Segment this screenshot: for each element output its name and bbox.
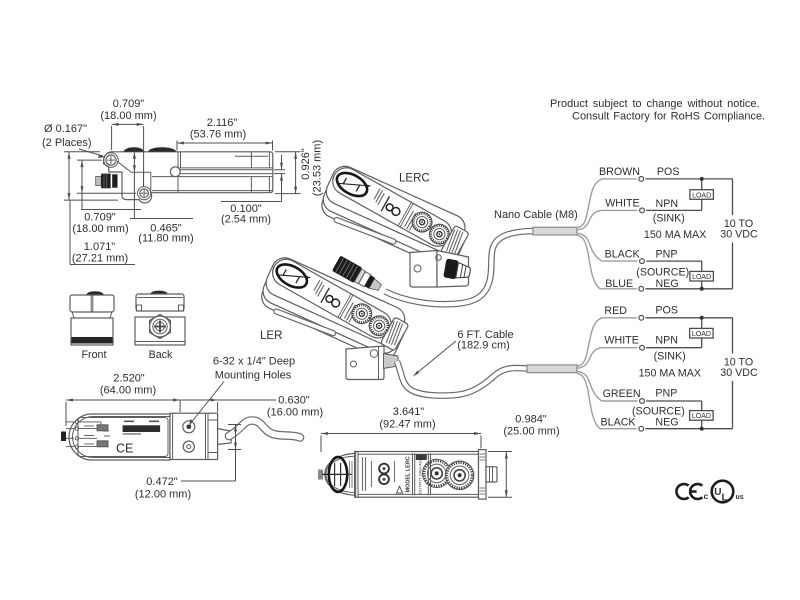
svg-text:(2 Places): (2 Places) xyxy=(42,137,92,149)
svg-text:RED: RED xyxy=(604,305,627,317)
svg-text:(12.00 mm): (12.00 mm) xyxy=(135,489,191,501)
svg-text:GREEN: GREEN xyxy=(603,388,641,400)
svg-text:BLACK: BLACK xyxy=(601,417,637,429)
svg-text:(SINK): (SINK) xyxy=(654,351,686,363)
svg-text:(53.76 mm): (53.76 mm) xyxy=(190,129,246,141)
svg-text:0.709": 0.709" xyxy=(113,98,145,110)
svg-text:150 MA MAX: 150 MA MAX xyxy=(639,367,701,379)
svg-text:LER: LER xyxy=(260,330,282,342)
svg-text:NPN: NPN xyxy=(656,198,679,210)
svg-text:PNP: PNP xyxy=(656,248,678,260)
svg-text:LOAD: LOAD xyxy=(692,274,711,281)
svg-text:NEG: NEG xyxy=(655,417,678,429)
svg-text:Mounting Holes: Mounting Holes xyxy=(215,370,292,382)
svg-text:2.116": 2.116" xyxy=(207,117,238,129)
svg-text:(64.00 mm): (64.00 mm) xyxy=(100,385,156,397)
svg-text:(2.54 mm): (2.54 mm) xyxy=(221,214,271,226)
svg-text:3.641": 3.641" xyxy=(393,406,425,418)
svg-text:(18.00 mm): (18.00 mm) xyxy=(100,110,156,122)
svg-text:us: us xyxy=(736,494,744,501)
svg-text:POS: POS xyxy=(657,166,680,178)
svg-text:6-32 x 1/4" Deep: 6-32 x 1/4" Deep xyxy=(213,356,295,368)
svg-text:Consult Factory for RoHS Compl: Consult Factory for RoHS Compliance. xyxy=(572,111,765,123)
svg-text:BROWN: BROWN xyxy=(599,166,640,178)
svg-text:LOAD: LOAD xyxy=(692,192,711,199)
svg-text:(25.00 mm): (25.00 mm) xyxy=(503,426,559,438)
svg-text:150 MA MAX: 150 MA MAX xyxy=(644,229,706,241)
svg-text:2.520": 2.520" xyxy=(113,373,145,385)
svg-text:1.071": 1.071" xyxy=(84,241,116,253)
svg-text:(18.00 mm): (18.00 mm) xyxy=(72,223,128,235)
svg-text:0.984": 0.984" xyxy=(515,414,547,426)
svg-text:LERC: LERC xyxy=(399,173,430,185)
svg-text:0.709": 0.709" xyxy=(84,212,116,224)
svg-text:(11.80 mm): (11.80 mm) xyxy=(138,233,193,245)
svg-text:LOAD: LOAD xyxy=(692,331,711,338)
svg-text:(27.21 mm): (27.21 mm) xyxy=(72,253,128,265)
svg-text:NPN: NPN xyxy=(655,334,678,346)
svg-text:LOAD: LOAD xyxy=(692,413,711,420)
svg-text:PNP: PNP xyxy=(655,388,677,400)
svg-text:CE: CE xyxy=(116,442,133,456)
svg-text:c: c xyxy=(704,491,709,501)
svg-text:(23.53 mm): (23.53 mm) xyxy=(312,140,324,196)
svg-text:(16.00 mm): (16.00 mm) xyxy=(267,407,323,419)
svg-text:0.472": 0.472" xyxy=(146,476,178,488)
svg-text:0.926": 0.926" xyxy=(300,148,312,180)
svg-text:(182.9 cm): (182.9 cm) xyxy=(457,340,510,352)
svg-text:L: L xyxy=(722,493,728,504)
svg-text:Ø 0.167": Ø 0.167" xyxy=(44,123,87,135)
svg-text:U: U xyxy=(714,487,721,498)
svg-text:NEG: NEG xyxy=(656,278,679,290)
svg-text:(SINK): (SINK) xyxy=(653,213,685,225)
svg-text:BLUE: BLUE xyxy=(605,278,633,290)
svg-text:Product subject to change with: Product subject to change without notice… xyxy=(550,98,760,110)
svg-text:OUTPUT GAIN ADJ: OUTPUT GAIN ADJ xyxy=(418,458,423,494)
svg-text:Back: Back xyxy=(149,349,173,361)
svg-text:WHITE: WHITE xyxy=(604,334,638,346)
svg-text:Nano Cable (M8): Nano Cable (M8) xyxy=(494,209,578,221)
svg-text:Front: Front xyxy=(82,349,107,361)
svg-text:POS: POS xyxy=(655,305,678,317)
svg-text:MODEL LERC: MODEL LERC xyxy=(406,456,412,492)
svg-text:30 VDC: 30 VDC xyxy=(720,229,758,241)
svg-text:0.630": 0.630" xyxy=(278,395,310,407)
svg-text:BLACK: BLACK xyxy=(605,248,641,260)
svg-text:30 VDC: 30 VDC xyxy=(720,367,758,379)
svg-text:(92.47 mm): (92.47 mm) xyxy=(379,419,435,431)
svg-text:(SOURCE): (SOURCE) xyxy=(636,266,689,278)
svg-text:WHITE: WHITE xyxy=(605,198,639,210)
